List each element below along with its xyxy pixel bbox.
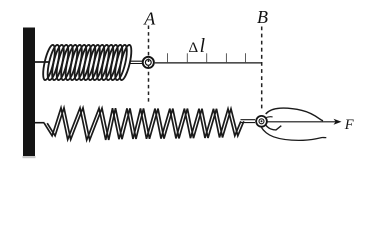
hand top outline xyxy=(266,108,323,121)
ruler line xyxy=(155,62,262,64)
svg-text:A: A xyxy=(143,8,156,28)
tick 2 xyxy=(186,53,188,63)
tick 5 xyxy=(245,53,247,63)
ring at A xyxy=(143,57,154,68)
svg-text:F: F xyxy=(344,117,354,133)
bottom spring zigzag (doubled stroke) xyxy=(44,108,244,140)
dashed line at B xyxy=(261,27,263,112)
ring at B xyxy=(256,116,267,127)
wire: bottom spring right rod (doubled) xyxy=(241,120,256,123)
tick 1 xyxy=(167,53,169,63)
force arrow F xyxy=(267,121,336,123)
tick 3 xyxy=(206,53,208,63)
wire: bottom spring left rod xyxy=(35,122,45,124)
wire: top spring left rod xyxy=(35,61,49,63)
hand thumb line xyxy=(266,116,272,119)
dashed line at A xyxy=(148,26,150,105)
svg-text:Δl: Δl xyxy=(189,36,206,57)
wire: top spring right rod xyxy=(130,61,142,63)
tick 4 xyxy=(225,53,227,63)
hand finger curl xyxy=(266,125,281,130)
svg-text:B: B xyxy=(257,7,268,27)
top spring coil xyxy=(41,44,134,81)
hand lower outline xyxy=(262,128,327,141)
wall xyxy=(23,28,35,157)
